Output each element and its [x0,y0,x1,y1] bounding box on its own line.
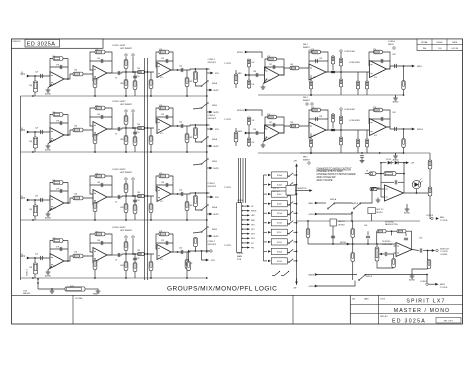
resistor R23 [73,128,83,132]
resistor R313 [193,196,197,207]
wire [50,190,68,192]
node rj6d [340,129,342,131]
svg-text:47P: 47P [56,121,60,123]
pin CON3-3 [242,214,250,216]
svg-text:C33: C33 [161,182,164,184]
resistor R529 [339,79,342,87]
node arr mono in [347,243,350,246]
wire c81 [383,253,386,255]
wire c80b [367,239,369,244]
pot wiper [379,253,384,255]
node j2r1 [32,151,34,153]
wire [194,193,196,207]
resistor R521 [247,59,250,67]
svg-text:GRP INSERT: GRP INSERT [120,48,133,50]
svg-text:ISSUE: ISSUE [437,42,443,44]
wire [150,72,152,96]
node mj5 [351,212,353,214]
node input SP3 [27,199,30,202]
wire relay 0 left [264,174,268,176]
net ground rail left [20,96,22,280]
node j4f [134,253,136,255]
wire op7 in2 [381,196,385,198]
switch relay 8 [287,249,293,253]
wire [28,75,50,77]
capacitor C624 [331,129,335,131]
node conn mb-l [431,217,433,219]
wire [207,196,212,198]
svg-text:1K0: 1K0 [137,124,140,126]
svg-text:SW-B: SW-B [212,105,218,107]
wire relay 9 left [264,260,268,262]
node rj5e [403,65,405,67]
node ins r5 [308,162,310,164]
switch relay 7 [287,240,293,244]
switch SW3B [201,226,209,232]
wire [122,72,154,73]
wire con38 [429,215,432,219]
resistor R81 [351,253,355,262]
svg-text:CR: CR [251,243,254,245]
wire [310,135,312,153]
svg-text:STB: STB [215,129,219,131]
net relay right bus [296,171,298,285]
svg-text:WR-1: WR-1 [303,44,308,46]
wire fb res2 [396,173,404,175]
svg-text:PCB: PCB [237,259,242,261]
resistor R533 [402,81,405,90]
sheet box [436,318,461,324]
node rj6c [332,129,334,131]
wire [134,254,136,278]
svg-text:10K: 10K [29,85,33,87]
svg-text:TO RCN: TO RCN [224,245,232,247]
wire [207,111,211,113]
switch SW1A [201,80,209,86]
wire [107,254,122,256]
svg-text:CON2-3: CON2-3 [208,115,216,117]
svg-text:SP2: SP2 [21,130,26,132]
svg-text:MASTER / MONO: MASTER / MONO [394,308,450,314]
resistor R47 [124,262,128,271]
resistor R524 [290,66,299,70]
node j4g [177,251,179,253]
node j2a [34,131,36,133]
net mono right vert [429,153,431,215]
node relay bus j3 [296,203,298,205]
wire [186,194,188,220]
wire mbr [316,274,357,276]
wire mixmono [371,214,373,221]
capacitor C21 [41,130,43,134]
resistor VR1 mono fader [375,247,379,261]
wire mono fb left [380,163,382,189]
resistor R28 [133,137,137,146]
svg-text:GP2: GP2 [251,229,255,231]
svg-text:MUTE: MUTE [214,90,220,92]
svg-text:C6: C6 [115,78,117,80]
wire [50,59,68,77]
svg-text:C29: C29 [35,72,38,74]
node j2r4 [206,151,208,153]
capacitor C11 [41,74,43,78]
node j1r4 [206,95,208,97]
svg-text:RBR: RBR [251,220,255,222]
svg-text:IC5-D: IC5-D [277,242,283,244]
wire [107,128,122,130]
node arr con38 [436,217,439,220]
wire [246,110,262,116]
wire [107,72,122,74]
node stb arrow 4 [206,259,209,262]
svg-text:100R: 100R [189,205,194,207]
resistor R621 [247,117,250,125]
wire con32 [428,283,437,285]
wire [171,69,210,70]
svg-text:10K: 10K [290,64,294,66]
resistor R29 [138,126,145,129]
wire u8 fb [376,231,378,244]
node j4o4 [188,250,190,252]
svg-text:WRLR: WRLR [251,211,257,213]
wire rem gnd1 [51,289,53,290]
resistor R25 [93,135,97,144]
svg-text:MON OUT: MON OUT [440,248,450,250]
node j3o2 [206,192,208,194]
switch relay 5 [287,221,293,225]
relay IC5-C [271,229,287,235]
wire fb line [376,230,378,232]
svg-text:TO RCN: TO RCN [440,287,448,289]
node nj6c [307,220,309,222]
wire [34,132,36,152]
capacitor C523 [316,59,318,63]
wire [90,116,112,118]
op-amp U4A [50,254,64,269]
resistor R44 [95,232,105,236]
node bus tap 3a [144,195,146,197]
node bus tap 3b [147,195,149,197]
wire [369,118,390,120]
svg-text:MONITOR: MONITOR [298,188,308,190]
capacitor C16 [166,59,168,63]
op-amp U8 [396,243,412,257]
svg-text:7.00: 7.00 [438,48,442,50]
capacitor C42 [60,247,62,251]
wire [64,183,68,204]
svg-text:10K: 10K [29,209,33,211]
net stb-mb routing [206,69,208,253]
pin relay 0 arrow [268,174,271,176]
wire [50,248,68,250]
svg-text:C36: C36 [253,129,256,131]
wire [94,201,96,220]
svg-text:INITIAL: INITIAL [421,41,427,44]
wire [202,251,208,260]
wire [207,145,211,147]
wire [186,252,188,278]
node j2h [186,151,188,153]
wire op7 out [404,192,429,194]
resistor R24 [95,106,105,110]
ground G90 [50,289,55,294]
wire [395,153,397,155]
node relay bus j6 [296,231,298,233]
svg-text:C37: C37 [269,122,272,124]
svg-text:MB TO: MB TO [339,221,346,223]
node j4r4 [206,277,208,279]
pin CON3-8 [242,237,250,239]
svg-text:ED 3025A: ED 3025A [27,41,56,47]
wire diode mid [392,162,394,164]
svg-text:INSERT: INSERT [303,100,311,102]
resistor R412 [185,260,189,269]
resistor R86 [306,229,310,238]
node arr L MIX [245,74,248,77]
node bus tap 2a [144,127,146,129]
svg-text:SW2-B: SW2-B [352,203,359,205]
wire [248,125,250,147]
resistor R70 [384,172,396,176]
wire [50,122,68,124]
node bus tap 2b [147,127,149,129]
wire gnd72 [406,204,408,207]
node relay bus j2 [296,193,298,195]
wire strr [316,281,355,287]
switch pfl extra1 [272,271,280,276]
resistor R17 [124,80,128,89]
wire c82 [405,233,407,236]
node arr monitor [309,189,312,192]
svg-text:CON3-8: CON3-8 [426,215,433,217]
svg-text:MONO: MONO [340,242,347,244]
wire [122,196,154,197]
node stb arrow 2 [210,128,213,131]
svg-text:SW-B: SW-B [212,229,218,231]
svg-text:C29: C29 [35,254,38,256]
svg-text:IC2: IC2 [160,259,163,261]
resistor R622 [247,138,250,146]
svg-text:C33: C33 [161,240,164,242]
svg-text:C10: C10 [137,258,140,260]
svg-text:IC3: IC3 [268,138,271,140]
resistor R90 [65,287,85,291]
resistor R42 [53,239,63,243]
resistor R630 [356,139,359,147]
relay IC5-B [271,220,287,226]
wire [193,108,201,109]
svg-text:C38: C38 [319,116,322,118]
wire relay 8 left [264,250,268,252]
svg-text:SW2-B: SW2-B [366,276,373,278]
resistor R18 [133,81,137,90]
svg-text:C6: C6 [115,260,117,262]
svg-text:10K: 10K [74,252,78,254]
svg-text:CON3-6 MIX: CON3-6 MIX [349,120,361,122]
node nj0 [352,243,354,245]
wire op7 in1 [377,188,385,190]
wire [107,196,122,198]
wire [195,139,200,142]
node j3g [177,193,179,195]
svg-text:STB: STB [211,260,215,262]
svg-text:C10: C10 [137,76,140,78]
wire u8 in2 [394,252,396,254]
wire [403,66,405,95]
resistor R111 [159,50,169,54]
ground G80 [409,274,415,282]
block MIX TO MONO [368,208,376,214]
op-amp U2C [157,119,171,134]
resistor R41 [33,263,37,274]
svg-text:IC2: IC2 [160,77,163,79]
svg-text:CON2-5: CON2-5 [208,183,216,185]
capacitor C14 [118,71,120,75]
capacitor C15 [133,76,137,78]
svg-text:-VE: -VE [293,288,297,290]
node +VE arrow mono [406,161,409,164]
node rj6r2 [403,152,405,154]
switch SW8A [358,274,366,280]
resistor R523 [268,57,277,61]
op-amp U2A [50,128,64,143]
svg-text:GROUP4: GROUP4 [208,244,217,246]
wire [28,257,50,259]
capacitor C26 [166,115,168,119]
net rail 2 [21,151,207,153]
op-amp U4C [157,245,171,260]
wire [235,128,237,146]
node j1c [94,95,96,97]
wire [386,127,414,129]
node j3r2 [125,219,127,221]
svg-text:STR-R: STR-R [309,286,316,288]
resistor R32 [53,181,63,185]
svg-text:SW-A: SW-A [212,206,218,209]
wire mono sig [353,243,396,245]
drawing-number box [12,39,104,48]
op-amp U1B [93,66,107,81]
svg-text:41: 41 [21,128,23,130]
svg-text:MB-L: MB-L [309,203,315,205]
resistor R528 [339,58,342,66]
node j3r4 [206,219,208,221]
node conn6b [340,108,342,110]
svg-text:1K0: 1K0 [137,250,140,252]
wire [263,79,267,84]
ground G52 [261,85,266,90]
wire [122,254,154,255]
node relay bus j8 [296,251,298,253]
wire relay 3 bus [294,203,297,205]
svg-text:HEAD: HEAD [93,292,98,295]
wire fb in [365,173,369,175]
svg-text:C29: C29 [35,196,38,198]
resistor R82 [392,259,396,268]
resistor R415 [187,262,191,271]
relay IC4-B [271,182,287,188]
node relay bus j0 [296,174,298,176]
resistor R22 [53,113,63,117]
resistor R312 [185,202,189,211]
node j4r1 [32,277,34,279]
svg-text:MIX OUT: MIX OUT [273,191,281,193]
resistor R71 [428,160,432,169]
resistor R45 [93,261,97,270]
wire [64,59,68,80]
wire [28,131,50,133]
node mute arrow 3b [209,235,212,238]
wire pot bot [377,261,394,268]
fader block STR [286,186,296,196]
resistor R49 [138,252,145,255]
capacitor C25 [133,132,137,134]
relay IC5-A [271,210,287,216]
node j3f [134,195,136,197]
node j4r2 [125,277,127,279]
svg-text:10K: 10K [252,84,256,86]
node nj4 [427,250,429,252]
node relay bus j4 [296,212,298,214]
pin CON3-6 [242,228,250,230]
svg-text:41: 41 [21,196,23,198]
wire [246,132,265,134]
wire [150,196,152,220]
node arr R MIX [245,132,248,135]
resistor R413 [193,238,197,247]
capacitor C44 [118,253,120,257]
svg-text:IC4-A: IC4-A [277,174,283,177]
wire [263,137,267,142]
svg-text:IC5-B: IC5-B [277,223,283,225]
svg-text:10K: 10K [252,62,256,64]
switch relay 2 [287,192,293,196]
wire [125,57,127,72]
svg-text:AGND: AGND [45,217,51,220]
wire fb cap2 [398,181,404,183]
wire [366,72,368,95]
resistor R113 [193,72,197,83]
capacitor C81 [385,252,387,256]
wire relay 9 bus [294,260,297,262]
ground G72 [404,207,410,215]
switch SW3A [201,204,209,210]
svg-text:41: 41 [21,72,23,74]
node input SP1 [27,75,30,78]
wire [132,181,134,196]
svg-text:41: 41 [21,254,23,256]
ground G53 [393,96,399,104]
svg-text:STR-L: STR-L [309,214,316,216]
node arr MTR R [245,109,248,112]
wire [194,237,196,251]
wire relay 3 left [264,203,268,205]
svg-text:10K: 10K [290,122,294,124]
wire [156,116,173,118]
strip divider [72,295,74,324]
svg-text:WRLR: WRLR [388,44,394,46]
pin CON3-2 [242,210,250,212]
wire [90,242,112,244]
node j2r2 [125,151,127,153]
wire [90,184,112,186]
capacitor C84 [331,236,335,238]
svg-text:10K: 10K [74,126,78,128]
svg-text:SP3: SP3 [21,198,26,200]
node j1d [125,71,127,73]
wire [171,193,210,194]
wire [94,259,96,278]
